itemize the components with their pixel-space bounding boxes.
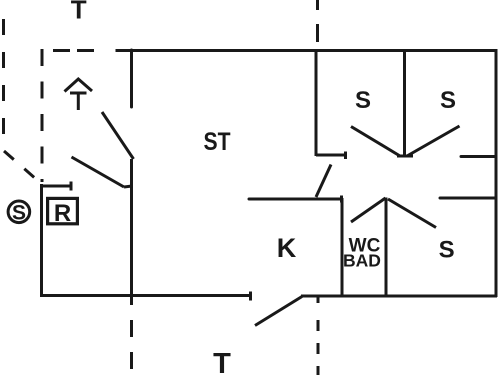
wall WC left bbox=[341, 198, 344, 297]
door leaf bedroom right bbox=[407, 126, 460, 156]
door leaf entry inner bbox=[72, 157, 125, 187]
section line top-centre dashed bbox=[316, 0, 319, 44]
wall bottom-right bbox=[301, 295, 497, 298]
door leaf K bbox=[316, 165, 331, 198]
jamb tick hall-bedroom bbox=[344, 152, 347, 160]
wall top bbox=[116, 49, 498, 52]
svg-text:S: S bbox=[355, 87, 371, 114]
wall hall-bedroom lintel bbox=[316, 154, 345, 157]
wall S3 top bbox=[440, 197, 496, 200]
wall WC right bbox=[385, 198, 388, 298]
door leaf bedroom left bbox=[351, 127, 400, 157]
svg-text:K: K bbox=[277, 233, 297, 263]
jamb tick bottom-left door bbox=[249, 292, 252, 301]
svg-text:S: S bbox=[440, 87, 456, 114]
section line far-left vertical dashed bbox=[2, 19, 5, 147]
svg-text:R: R bbox=[54, 200, 71, 227]
door leaf terrace bbox=[255, 297, 302, 326]
door leaf entry outer bbox=[102, 112, 134, 159]
wall bedroom divider foot bbox=[397, 155, 413, 158]
wall hall-kitchen bbox=[130, 159, 133, 305]
stub section line bottom-centre bbox=[317, 296, 320, 303]
svg-text:S: S bbox=[439, 237, 455, 264]
jamb tick K top bbox=[340, 196, 343, 203]
entrance arrow stem bbox=[77, 93, 80, 110]
symbol S circle bbox=[8, 201, 30, 223]
wall K top bbox=[249, 198, 341, 201]
svg-text:T: T bbox=[71, 0, 87, 25]
entrance arrow chevron bbox=[65, 79, 93, 92]
wall stub upper-left bbox=[130, 50, 133, 107]
section line bottom-centre dashed bbox=[317, 320, 320, 375]
wall right bbox=[495, 49, 498, 297]
jamb tick entry shelf bbox=[70, 182, 73, 191]
wall bottom-left bbox=[41, 294, 251, 297]
wall ST-hall bbox=[315, 50, 318, 156]
section line bottom-left dashed bbox=[130, 320, 133, 370]
wall bedroom divider bbox=[403, 50, 406, 156]
carport line vertical dashed bbox=[41, 49, 44, 182]
wall left bbox=[40, 184, 43, 297]
door leaf S3 bbox=[388, 199, 436, 228]
symbol R box bbox=[48, 198, 78, 223]
svg-text:BAD: BAD bbox=[343, 251, 381, 271]
svg-text:ST: ST bbox=[204, 128, 231, 156]
svg-text:T: T bbox=[213, 348, 231, 375]
wall entry shelf bbox=[40, 185, 71, 188]
carport line horizontal dashed bbox=[53, 49, 94, 52]
entrance arrow crossbar bbox=[70, 92, 87, 95]
door stub entry inner bbox=[124, 186, 132, 187]
svg-text:S: S bbox=[12, 201, 26, 224]
door leaf WC bbox=[351, 198, 386, 222]
wall right-bedroom lintel bbox=[461, 155, 496, 158]
section line left diagonal dashed bbox=[4, 151, 40, 183]
